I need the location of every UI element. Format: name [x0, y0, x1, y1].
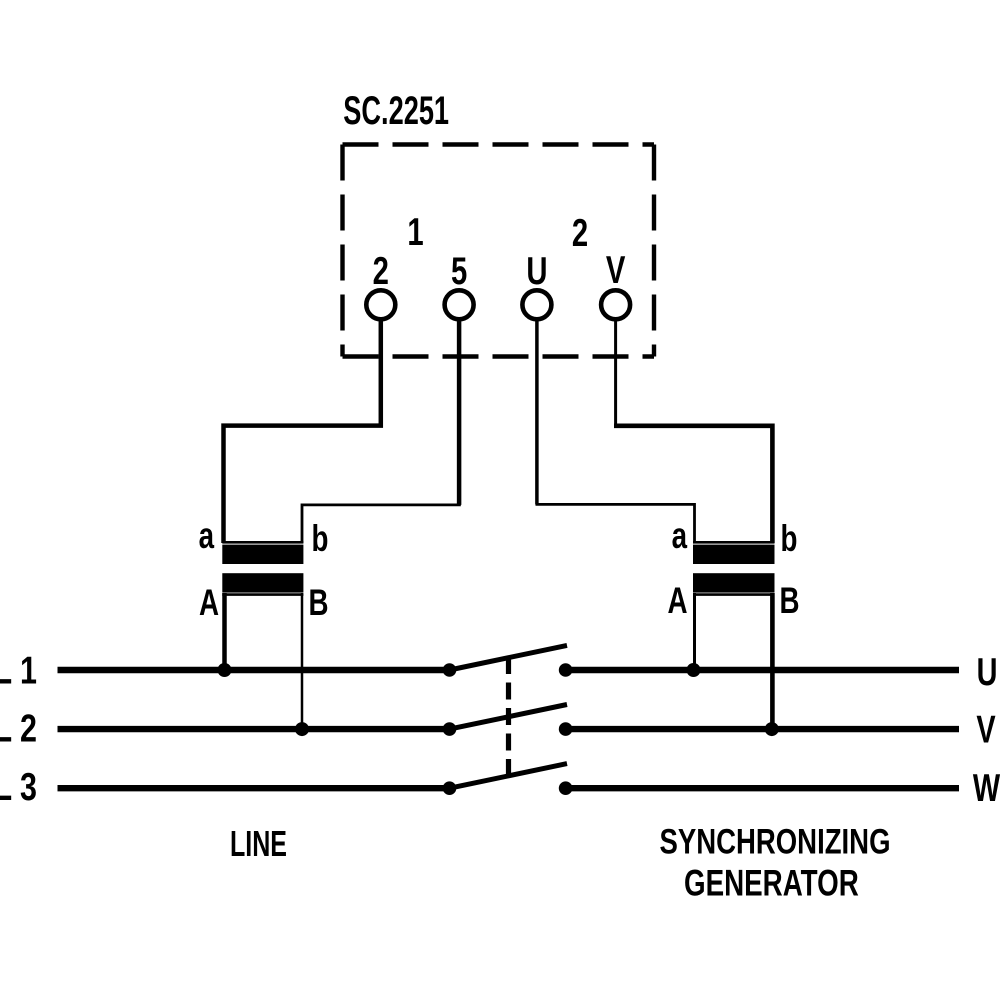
- line L1/U right segment: [566, 667, 959, 673]
- caption GENERATOR: [684, 862, 859, 904]
- transformer T1 winding (left): [222, 542, 303, 594]
- svg-text:2: 2: [373, 250, 389, 293]
- svg-text:V: V: [606, 249, 626, 292]
- label 2 (winding group 2): [572, 212, 588, 255]
- label 1 (winding group 1): [407, 211, 423, 254]
- wire terminal 2 to winding T1 terminal a: [224, 319, 381, 543]
- wire terminal V vertical: [614, 319, 617, 426]
- svg-text:a: a: [199, 514, 215, 556]
- wire terminal V to winding T2 terminal b: [614, 426, 772, 543]
- label A (T1): [199, 581, 219, 623]
- svg-text:5: 5: [451, 250, 467, 293]
- svg-text:1: 1: [407, 211, 423, 254]
- pin label U: [526, 250, 547, 293]
- svg-text:W: W: [973, 767, 1000, 810]
- label a (T1): [199, 514, 215, 556]
- label B (T1): [309, 581, 329, 623]
- wire terminal 5 to winding T1 terminal b: [302, 505, 461, 543]
- switch S1 left contact dot: [443, 663, 457, 677]
- pin label V: [606, 249, 626, 292]
- line L2/V right segment: [566, 726, 959, 732]
- switch S1 right contact dot: [559, 663, 573, 677]
- svg-text:2: 2: [572, 212, 588, 255]
- label L 3: [0, 766, 37, 809]
- pin label 5: [451, 250, 467, 293]
- label a (T2): [672, 514, 688, 556]
- svg-text:SYNCHRONIZING: SYNCHRONIZING: [660, 822, 891, 862]
- switch S3 left contact dot: [443, 781, 457, 795]
- svg-text:SC.2251: SC.2251: [343, 89, 449, 133]
- svg-text:L 1: L 1: [0, 650, 37, 693]
- junction dot T1-B on L2: [295, 722, 309, 736]
- label SC.2251: [343, 89, 449, 133]
- svg-text:B: B: [780, 579, 800, 621]
- switch S2 right contact dot: [559, 722, 573, 736]
- transformer T2 winding (right): [693, 542, 775, 594]
- svg-text:V: V: [976, 709, 996, 752]
- switch mechanical link (dashed): [506, 657, 511, 780]
- wire terminal U to winding T2 terminal a: [536, 504, 695, 543]
- svg-text:U: U: [977, 651, 998, 694]
- line L3 left segment: [58, 785, 450, 791]
- terminal circle 2: [366, 290, 395, 319]
- label b (T1): [312, 517, 329, 559]
- svg-text:A: A: [199, 581, 219, 623]
- svg-text:a: a: [672, 514, 688, 556]
- caption LINE: [230, 823, 287, 864]
- switch S3 blade: [450, 764, 568, 789]
- svg-text:b: b: [312, 517, 329, 559]
- wire T1 terminal B to line L2: [301, 593, 304, 729]
- label L 2: [0, 708, 37, 751]
- caption SYNCHRONIZING: [660, 822, 891, 862]
- terminal circle V: [601, 290, 630, 319]
- junction dot T2-B on V line: [765, 722, 779, 736]
- wire terminal U vertical: [535, 319, 539, 504]
- line L3/W right segment: [566, 785, 959, 791]
- terminal circle 5: [445, 290, 474, 319]
- line L1 left segment: [58, 667, 450, 673]
- line L2 left segment: [58, 726, 450, 732]
- dashed box SC.2251 outline: [343, 145, 655, 357]
- svg-text:GENERATOR: GENERATOR: [684, 862, 859, 904]
- label L 1: [0, 650, 37, 693]
- label W (generator phase): [973, 767, 1000, 810]
- label V (generator phase): [976, 709, 996, 752]
- switch S3 right contact dot: [559, 781, 573, 795]
- wire T2 terminal A to line U: [693, 593, 696, 670]
- switch S1 blade: [450, 645, 568, 670]
- svg-text:b: b: [781, 517, 798, 559]
- wire T1 terminal A to line L1: [222, 593, 227, 670]
- svg-text:U: U: [526, 250, 547, 293]
- wire T2 terminal B to line V: [770, 593, 775, 729]
- label b (T2): [781, 517, 798, 559]
- label A (T2): [667, 579, 687, 621]
- svg-text:LINE: LINE: [230, 823, 287, 864]
- terminal circle U: [522, 290, 551, 319]
- label B (T2): [780, 579, 800, 621]
- svg-text:L 2: L 2: [0, 708, 37, 751]
- junction dot T1-A on L1: [218, 663, 232, 677]
- svg-text:A: A: [667, 579, 687, 621]
- switch S2 left contact dot: [443, 722, 457, 736]
- svg-text:L 3: L 3: [0, 766, 37, 809]
- label U (generator phase): [977, 651, 998, 694]
- svg-text:B: B: [309, 581, 329, 623]
- switch S2 blade: [450, 705, 568, 730]
- pin label 2: [373, 250, 389, 293]
- wire terminal 5 vertical: [457, 319, 462, 505]
- junction dot T2-A on U line: [687, 663, 701, 677]
